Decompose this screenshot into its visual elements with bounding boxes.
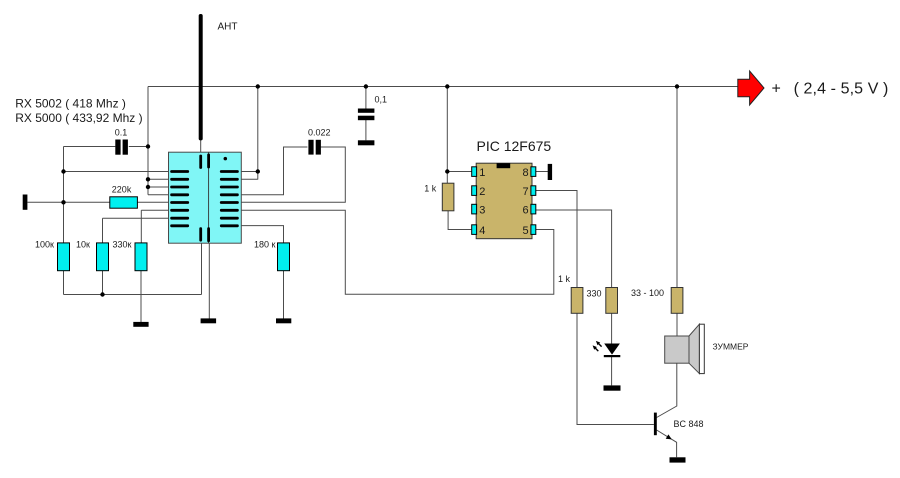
svg-text:BC 848: BC 848 [674,419,704,429]
svg-text:330к: 330к [113,240,132,250]
svg-text:330: 330 [587,289,602,299]
svg-text:1: 1 [479,167,485,179]
svg-text:8: 8 [522,167,528,179]
svg-text:0.022: 0.022 [308,128,331,138]
svg-text:ЗУММЕР: ЗУММЕР [713,341,749,351]
svg-text:3: 3 [479,205,485,217]
svg-text:RX 5002 ( 418 Mhz ): RX 5002 ( 418 Mhz ) [15,97,126,111]
svg-text:180 к: 180 к [254,240,276,250]
svg-text:4: 4 [479,225,485,237]
svg-text:1 k: 1 k [558,274,571,284]
svg-text:100к: 100к [35,240,54,250]
svg-text:0,1: 0,1 [375,95,388,105]
svg-text:АНТ: АНТ [218,22,238,33]
svg-text:2: 2 [479,186,485,198]
svg-text:PIC 12F675: PIC 12F675 [477,138,552,154]
svg-text:1 k: 1 k [424,183,437,193]
svg-text:0.1: 0.1 [115,128,128,138]
svg-text:RX 5000 ( 433,92 Mhz ): RX 5000 ( 433,92 Mhz ) [15,111,142,125]
svg-text:10к: 10к [76,240,90,250]
svg-text:5: 5 [522,225,528,237]
svg-text:7: 7 [522,186,528,198]
svg-text:220k: 220k [112,184,132,194]
svg-text:+ ( 2,4 - 5,5 V ): + ( 2,4 - 5,5 V ) [772,81,889,98]
svg-text:6: 6 [522,205,528,217]
svg-text:33 - 100: 33 - 100 [631,288,664,298]
